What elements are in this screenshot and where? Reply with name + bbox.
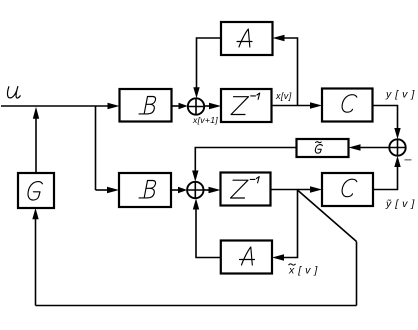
- svg-text:ỹ[v]: ỹ[v]: [385, 198, 418, 210]
- arrowhead S3 into Gtilde: [349, 144, 361, 150]
- wire G output up to U line: [35, 116, 37, 173]
- tilde over x of xtilde label: [289, 264, 296, 265]
- svg-text:x[v]: x[v]: [288, 265, 321, 277]
- block A top: [221, 22, 273, 55]
- wire C top output to S3: [373, 106, 398, 132]
- block B lower: [119, 173, 171, 207]
- label U script: [7, 87, 20, 98]
- arrowhead into A top: [273, 35, 285, 41]
- block C top: [322, 89, 373, 122]
- arrowhead B lower into S2: [178, 187, 187, 193]
- wire A top output down to S1: [197, 38, 222, 90]
- arrowhead G up into U line: [33, 107, 39, 119]
- wire bottom up to G input: [35, 217, 37, 306]
- wire C lower output up to S3: [373, 164, 398, 190]
- block Gtilde: [297, 139, 349, 157]
- arrowhead Z lower into C lower: [310, 186, 322, 192]
- wire S3 output to Gtilde: [359, 147, 389, 149]
- svg-text:x[v]: x[v]: [275, 91, 292, 101]
- letter B lower: [139, 181, 156, 198]
- arrowhead S2 into Z lower: [209, 187, 221, 193]
- arrowhead A lower up into S2: [193, 198, 199, 209]
- block Z top: [221, 89, 272, 122]
- wire node x[v] up and left to A top input: [283, 38, 298, 106]
- summer S1 cross: [188, 106, 204, 108]
- arrowhead A top down into S1: [193, 87, 199, 98]
- wire Gtilde output down to S2: [195, 148, 296, 175]
- minus sign at S3: [405, 159, 412, 161]
- arrowhead into A lower: [272, 254, 284, 260]
- block B top: [120, 89, 172, 122]
- arrowhead S1 into Z top: [209, 103, 221, 109]
- arrowhead B top into S1: [179, 103, 188, 109]
- arrowhead Z top into C top: [310, 102, 322, 108]
- arrowhead C lower up into S3: [394, 156, 400, 167]
- letter Z top with exponent: [231, 93, 260, 114]
- arrowhead C top down into S3: [394, 128, 400, 139]
- block A lower: [221, 241, 272, 274]
- letter G in G block: [28, 182, 42, 200]
- arrowhead bottom feedback into G: [32, 208, 38, 219]
- letter A lower: [240, 247, 255, 265]
- wire Z top output to C top: [272, 105, 315, 107]
- letter C lower: [342, 179, 357, 197]
- wire diagonal feedback: [298, 191, 357, 242]
- wire B top to summer S1: [172, 105, 182, 107]
- wire S2 to Z lower: [204, 189, 214, 191]
- letter B top: [139, 97, 156, 114]
- wire B lower to S2: [171, 189, 181, 191]
- svg-text:y[v]: y[v]: [385, 89, 418, 101]
- summer S3: [389, 139, 405, 155]
- wire bottom feedback line: [36, 305, 357, 307]
- block Z lower: [221, 173, 271, 206]
- arrowhead into B lower: [107, 187, 119, 193]
- letter A top: [237, 29, 252, 47]
- summer S2: [187, 182, 203, 198]
- wire U input line: [1, 105, 111, 107]
- wire Z lower output to C lower: [271, 189, 315, 191]
- letter C top: [342, 95, 357, 113]
- wire A lower output up to S2: [196, 206, 221, 258]
- letter Z lower with exponent: [231, 177, 260, 198]
- summer S3 cross: [389, 147, 405, 149]
- wire J1 to lower B: [96, 189, 111, 191]
- summer S1: [188, 98, 204, 114]
- letter Gtilde small with tilde: [315, 142, 322, 153]
- block G: [18, 173, 54, 208]
- wire right vertical feedback: [356, 242, 358, 306]
- summer S2 cross: [187, 189, 203, 191]
- block C lower: [322, 173, 373, 206]
- arrowhead into B top: [108, 103, 120, 109]
- wire S1 to Z top: [204, 105, 214, 107]
- wire node xbar down and left to A lower input: [282, 190, 298, 258]
- arrowhead Gtilde down into S2: [192, 171, 198, 182]
- node J1 branch down to lower B: [95, 106, 97, 190]
- svg-text:x[v+1]: x[v+1]: [192, 115, 218, 125]
